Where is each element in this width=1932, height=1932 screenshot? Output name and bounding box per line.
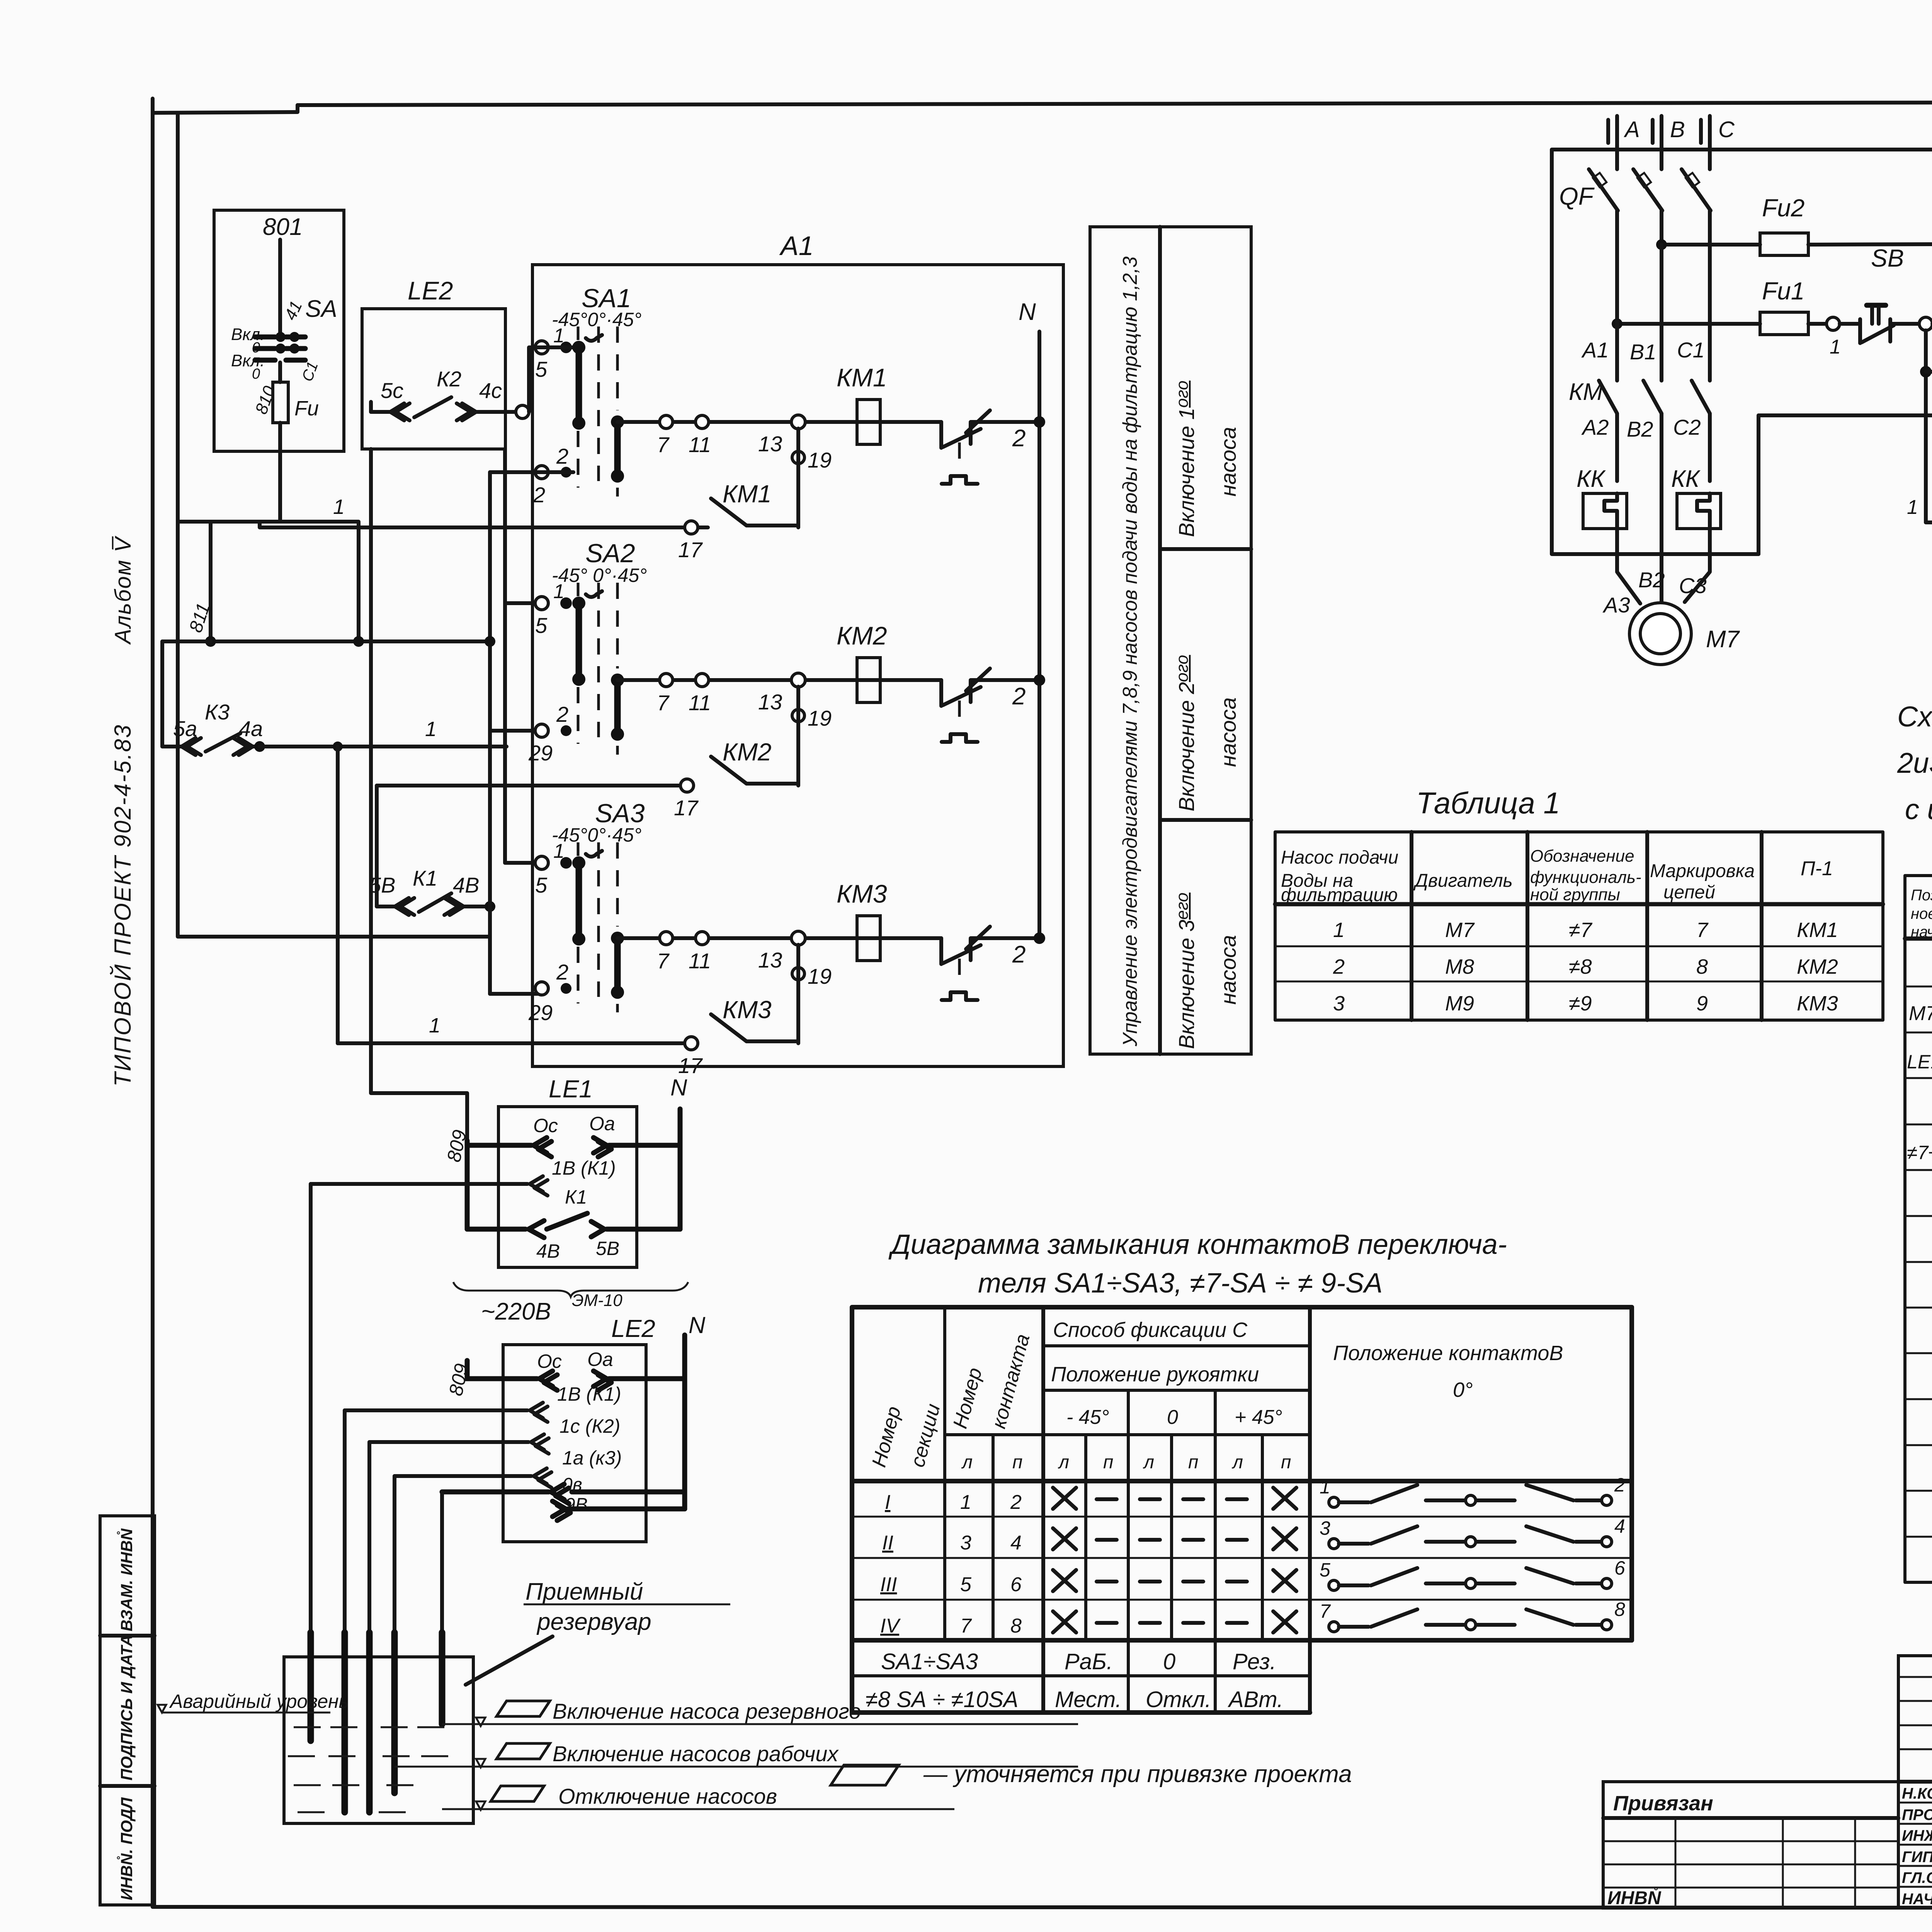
svg-text:Ос: Ос (533, 1115, 558, 1136)
svg-text:≠9: ≠9 (1569, 992, 1592, 1015)
function strip divider (1158, 227, 1162, 1054)
svg-text:SВ: SВ (1871, 244, 1904, 272)
svg-text:0: 0 (1163, 1649, 1175, 1674)
svg-text:N: N (1019, 299, 1036, 325)
svg-text:п: п (1188, 1452, 1198, 1473)
svg-text:2: 2 (556, 444, 568, 468)
svg-text:Отключение насосов: Отключение насосов (558, 1784, 777, 1808)
title block outer (1898, 1656, 1932, 1908)
LE1 contact K1 (467, 1186, 680, 1262)
drawing frame top-left step (153, 105, 298, 113)
SECTION: a1box (528, 227, 1251, 1078)
svg-text:М7: М7 (1445, 918, 1475, 942)
svg-text:Fи1: Fи1 (1762, 277, 1804, 305)
svg-text:7: 7 (657, 949, 670, 973)
svg-text:1В (К1): 1В (К1) (557, 1383, 621, 1405)
svg-text:SА3: SА3 (595, 799, 645, 828)
svg-text:резервуар: резервуар (536, 1609, 651, 1635)
svg-text:4: 4 (1010, 1532, 1022, 1554)
svg-text:М7÷М9: М7÷М9 (1909, 1002, 1932, 1025)
svg-text:НАЧ.ОТД: НАЧ.ОТД (1902, 1891, 1932, 1908)
feeder stub row A3 (505, 861, 539, 865)
svg-text:Включение насосов рабочих: Включение насосов рабочих (553, 1742, 839, 1766)
svg-text:К3: К3 (205, 700, 230, 724)
LE2 rows 0B 9B (442, 1475, 685, 1520)
svg-text:3: 3 (1320, 1517, 1330, 1539)
svg-text:Насос подачи: Насос подачи (1281, 847, 1398, 868)
svg-text:— уточняется при привязке: — уточняется при привязке проекта (923, 1761, 1352, 1787)
function strip cell divider 2 (1160, 818, 1251, 822)
coil KM2 (857, 658, 880, 702)
diagram table grid (852, 1307, 1632, 1713)
svg-text:ПОДПИСЬ И ДАТА: ПОДПИСЬ И ДАТА (117, 1635, 136, 1781)
SECTION: titleblock (1603, 1656, 1932, 1932)
svg-text:КМ1: КМ1 (837, 363, 887, 392)
function strip cell divider 1 (1160, 547, 1251, 551)
receiving tank (284, 1657, 473, 1823)
motor M7 (1602, 529, 1740, 665)
svg-text:Позицион-: Позицион- (1911, 887, 1932, 904)
svg-text:≠7: ≠7 (1569, 918, 1593, 942)
svg-text:Мест.: Мест. (1055, 1687, 1122, 1712)
svg-text:Управление электродвигателями: Управление электродвигателями 7,8,9 насо… (1119, 257, 1141, 1047)
SECTION: tables (1275, 701, 1932, 1582)
svg-text:SА2: SА2 (585, 539, 635, 568)
svg-text:ПРОВЕР.: ПРОВЕР. (1902, 1806, 1932, 1823)
svg-text:7: 7 (960, 1615, 972, 1637)
contact K3 (5a-4a) (162, 700, 265, 755)
sidebar divider 2 (100, 1784, 155, 1788)
svg-text:1с (К2): 1с (К2) (560, 1415, 620, 1437)
svg-text:~220В: ~220В (481, 1298, 551, 1325)
svg-text:л: л (1231, 1452, 1243, 1473)
svg-text:с изменениями согласно табли: с изменениями согласно таблице 1 (1905, 793, 1932, 825)
aux contact KM3 (self hold) (678, 945, 832, 1078)
SECTION: levelsensors (158, 1075, 1352, 1823)
svg-text:2и3 аналогична схеме управл: 2и3 аналогична схеме управления насосом … (1897, 747, 1932, 779)
wire 801 drop inside box (278, 240, 282, 333)
thermal contact KK2 with reset (941, 668, 1039, 742)
fuse Fu1 (1612, 277, 1826, 335)
svg-text:КМ2: КМ2 (837, 621, 887, 650)
svg-text:А2: А2 (1581, 415, 1609, 439)
svg-text:1: 1 (1333, 918, 1345, 942)
sidebar divider 1 (100, 1634, 155, 1638)
LE2 row 1B(K1) (345, 1383, 621, 1422)
svg-text:29: 29 (528, 1000, 553, 1025)
wire LE2 box left drop (371, 449, 467, 1141)
svg-text:5: 5 (535, 613, 548, 638)
switch SA in box 801 (231, 296, 337, 382)
svg-text:л: л (1058, 1452, 1069, 1473)
svg-text:9: 9 (1696, 992, 1708, 1015)
svg-text:К2: К2 (437, 367, 461, 391)
svg-text:АВт.: АВт. (1228, 1687, 1283, 1712)
svg-text:Оа: Оа (589, 1113, 615, 1134)
signatures grid (1898, 1656, 1932, 1908)
svg-text:2: 2 (1012, 425, 1026, 452)
svg-text:ной группы: ной группы (1530, 885, 1620, 904)
svg-text:19: 19 (808, 706, 832, 730)
wire drop to aux rung3 (336, 747, 340, 1043)
svg-text:М8: М8 (1445, 955, 1474, 978)
parts list table grid (1905, 876, 1932, 1582)
svg-text:Ос: Ос (537, 1350, 562, 1372)
function strip box (1090, 227, 1251, 1054)
sensor LE2 box (503, 1345, 646, 1542)
svg-text:насоса: насоса (1216, 935, 1240, 1005)
svg-text:Оа: Оа (587, 1349, 613, 1370)
svg-text:Схема управления насосами пода: Схема управления насосами подачи воды на… (1897, 701, 1932, 733)
svg-text:Положение контактоВ: Положение контактоВ (1333, 1342, 1563, 1365)
svg-text:11: 11 (689, 432, 711, 457)
thermal relays KK heaters (1577, 466, 1721, 529)
svg-text:I: I (885, 1491, 890, 1514)
data row II (882, 1528, 1296, 1554)
svg-text:1В (К1): 1В (К1) (552, 1157, 616, 1179)
svg-text:1: 1 (1907, 496, 1918, 519)
svg-text:Рез.: Рез. (1233, 1649, 1276, 1674)
svg-text:8: 8 (1614, 1599, 1625, 1620)
interposing relay section P-1 (1907, 448, 1932, 565)
svg-text:функциональ-: функциональ- (1530, 868, 1641, 887)
LE1 row 1B(K1) (311, 1157, 616, 1196)
contact K2 (5c-4c) in LE2 (371, 367, 522, 420)
svg-text:ное обоз-: ное обоз- (1911, 905, 1932, 922)
svg-text:N: N (670, 1075, 687, 1100)
svg-text:3: 3 (960, 1532, 971, 1554)
breaker QF (1559, 169, 1711, 245)
wire from A1 area to panel (long link) (1757, 415, 1760, 554)
svg-text:2: 2 (1010, 1491, 1022, 1514)
SECTION: diagramtable (852, 1229, 1632, 1713)
switch SA3 (528, 799, 645, 1025)
thermal contact KK1 with reset (941, 410, 1039, 484)
svg-text:А: А (1624, 117, 1640, 142)
wire K2 to SA1 row A (529, 347, 537, 412)
thermal contact KK3 with reset (941, 927, 1039, 1000)
svg-text:13: 13 (758, 690, 782, 714)
svg-text:4а: 4а (239, 716, 263, 741)
svg-text:2: 2 (556, 702, 568, 726)
svg-text:В: В (1670, 117, 1685, 142)
svg-text:РаБ.: РаБ. (1065, 1649, 1113, 1674)
svg-text:2: 2 (533, 483, 545, 507)
LE2 upper box (362, 309, 505, 449)
svg-text:SА1÷SА3: SА1÷SА3 (881, 1649, 978, 1674)
svg-text:ГИП: ГИП (1902, 1849, 1932, 1866)
svg-text:Альбом V̅: Альбом V̅ (111, 535, 136, 645)
svg-text:7: 7 (1320, 1600, 1331, 1622)
phase A lead-in (1615, 116, 1619, 169)
svg-text:КМ3: КМ3 (1797, 992, 1838, 1015)
svg-text:Диаграмма замыкания контакто: Диаграмма замыкания контактоВ переключа- (888, 1229, 1507, 1260)
svg-text:LЕ1;LЕ2: LЕ1;LЕ2 (1907, 1051, 1932, 1073)
svg-text:8: 8 (1010, 1615, 1022, 1637)
electrode wires down to tank (309, 1184, 313, 1638)
svg-text:2: 2 (1333, 955, 1345, 978)
box A1 (532, 265, 1063, 1066)
self-hold contact KM (1920, 324, 1932, 522)
left box Privyazan (1603, 1792, 1898, 1908)
svg-text:1а (к3): 1а (к3) (562, 1447, 622, 1469)
switch diagram row 4 (1320, 1599, 1625, 1632)
svg-text:3: 3 (1333, 992, 1345, 1015)
svg-text:2: 2 (556, 960, 568, 984)
enclosure boundary left (178, 113, 490, 994)
svg-text:LЕ2: LЕ2 (408, 276, 453, 305)
svg-text:17: 17 (678, 537, 703, 562)
svg-text:- 45°: - 45° (1066, 1406, 1109, 1429)
svg-text:КМ1: КМ1 (723, 480, 772, 508)
svg-text:-45°0°·45°: -45°0°·45° (552, 309, 641, 330)
svg-text:Таблица 1: Таблица 1 (1416, 786, 1560, 820)
rung 2 line (617, 678, 941, 682)
LE1 row Oc Oa (467, 1109, 680, 1229)
svg-text:0°: 0° (1453, 1378, 1473, 1401)
svg-text:4В: 4В (453, 873, 480, 897)
switch diagram row 3 (1320, 1557, 1625, 1590)
svg-text:-45°0°·45°: -45°0°·45° (552, 824, 641, 846)
svg-text:0: 0 (252, 366, 260, 382)
sensor LE1 box (498, 1107, 637, 1267)
level mark 2 + legend (395, 1742, 1078, 1767)
phase B lead-in (1660, 116, 1663, 169)
left sidebar strip (100, 1516, 155, 1905)
drawing frame left border (151, 99, 155, 1907)
svg-text:М9: М9 (1445, 992, 1474, 1015)
svg-text:А1: А1 (779, 231, 814, 261)
wire aux2 left extension (377, 784, 687, 787)
svg-text:6: 6 (1614, 1557, 1625, 1579)
svg-text:начение: начение (1911, 923, 1932, 940)
svg-text:7: 7 (657, 690, 670, 715)
svg-text:5В: 5В (369, 873, 396, 897)
svg-text:ИНВN̊. ПОДЛ: ИНВN̊. ПОДЛ (117, 1797, 136, 1900)
data row III (880, 1570, 1296, 1596)
neutral wire N (1037, 332, 1041, 938)
svg-text:п: п (1103, 1452, 1113, 1473)
svg-text:17: 17 (678, 1053, 703, 1078)
svg-text:В2: В2 (1627, 417, 1653, 441)
svg-text:4В: 4В (536, 1240, 560, 1262)
svg-text:ГЛ.СПЕЦ: ГЛ.СПЕЦ (1902, 1869, 1932, 1886)
SECTION: leftblock (162, 113, 692, 1141)
level mark 3 + legend (442, 1784, 954, 1810)
svg-text:II: II (882, 1532, 893, 1554)
svg-text:КМ2: КМ2 (1797, 955, 1838, 978)
svg-text:4с: 4с (479, 378, 502, 403)
box 801 (214, 210, 344, 451)
svg-text:А1: А1 (1581, 338, 1609, 362)
svg-text:LЕ1: LЕ1 (549, 1075, 593, 1103)
table 1 grid (1275, 832, 1883, 1020)
rung 3 line (617, 936, 941, 940)
svg-text:ЭМ-10: ЭМ-10 (572, 1291, 622, 1310)
svg-text:2: 2 (1614, 1474, 1625, 1496)
feeder vertical rows B (488, 472, 492, 994)
svg-text:ИНЖ.: ИНЖ. (1902, 1827, 1932, 1844)
wire aux3 left extension (338, 1041, 691, 1045)
phase C lead-in (1708, 116, 1712, 169)
svg-text:19: 19 (808, 448, 832, 472)
svg-text:КК: КК (1577, 466, 1606, 492)
data row IV (880, 1611, 1296, 1637)
svg-text:QF: QF (1559, 182, 1595, 210)
LE2 row Oc Oa (467, 1335, 685, 1509)
svg-text:С1: С1 (1677, 338, 1705, 362)
wire 811 bus (209, 522, 213, 641)
svg-text:С2: С2 (1673, 415, 1701, 439)
wire LE2 box right drop to SA rows (503, 449, 507, 863)
contact K1 (5В-4В) (369, 786, 495, 915)
svg-text:Двигатель: Двигатель (1413, 871, 1513, 891)
electrodes (308, 1633, 314, 1741)
svg-text:Обозначение: Обозначение (1530, 847, 1634, 866)
feeder stub row B3 (490, 992, 539, 996)
svg-text:N: N (689, 1312, 706, 1338)
brace 220V EM-10 (453, 1282, 688, 1297)
feeder stub row B1 (490, 470, 539, 474)
svg-text:Способ фиксации С: Способ фиксации С (1053, 1318, 1248, 1342)
svg-text:насоса: насоса (1216, 427, 1240, 497)
LE2 row 1c(K2) (369, 1415, 620, 1454)
svg-text:7: 7 (657, 432, 670, 457)
svg-text:Аварийный уровень: Аварийный уровень (169, 1690, 349, 1712)
svg-text:ИНВN̊: ИНВN̊ (1607, 1887, 1662, 1908)
svg-text:29: 29 (528, 741, 553, 765)
feeder stub row B2 (490, 729, 539, 733)
svg-text:В2: В2 (1638, 568, 1665, 592)
svg-text:2: 2 (1012, 683, 1026, 710)
svg-text:насоса: насоса (1216, 697, 1240, 767)
svg-text:С3: С3 (1679, 573, 1707, 598)
svg-text:Откл.: Откл. (1146, 1687, 1211, 1712)
data row I (885, 1488, 1296, 1514)
svg-text:5: 5 (535, 873, 548, 897)
svg-text:Привязан: Привязан (1613, 1792, 1713, 1815)
svg-text:5В: 5В (596, 1238, 619, 1259)
level mark 1 + legend (442, 1699, 1078, 1726)
water level dashes (288, 1727, 448, 1812)
wire jog 801 to 811 bus (178, 522, 359, 641)
panel boundary (stepped box) (1552, 150, 1932, 602)
switch SA2 (528, 539, 647, 765)
svg-text:4: 4 (1614, 1515, 1625, 1537)
svg-text:7: 7 (1696, 918, 1709, 942)
svg-text:КМ3: КМ3 (723, 996, 772, 1024)
svg-text:Приемный: Приемный (526, 1578, 643, 1605)
svg-text:11: 11 (689, 690, 711, 715)
aux contact KM1 (self hold) (678, 429, 832, 562)
svg-text:П-1: П-1 (1801, 857, 1833, 880)
svg-text:ТИПОВОЙ ПРОЕКТ 902-4-5.83: ТИПОВОЙ ПРОЕКТ 902-4-5.83 (110, 724, 136, 1087)
svg-text:С: С (1718, 117, 1735, 142)
svg-text:п: п (1012, 1452, 1022, 1473)
drawing frame bottom border (153, 1907, 1932, 1908)
svg-text:Н.КОНТР: Н.КОНТР (1902, 1785, 1932, 1802)
svg-text:Включение насоса резервного: Включение насоса резервного (553, 1699, 861, 1723)
coil KM1 (857, 400, 880, 444)
svg-text:л: л (961, 1452, 973, 1473)
svg-text:1: 1 (960, 1491, 971, 1514)
svg-text:ВЗАМ. ИНВN̊: ВЗАМ. ИНВN̊ (117, 1528, 136, 1631)
note: refined at project binding (831, 1765, 899, 1785)
svg-text:2: 2 (1012, 941, 1026, 968)
wire drop to K3 row (160, 641, 164, 747)
fuse Fu in box 801 (273, 382, 288, 423)
svg-text:л: л (1143, 1452, 1154, 1473)
svg-text:Маркировка: Маркировка (1650, 861, 1755, 881)
svg-text:1: 1 (1830, 336, 1841, 358)
svg-text:5с: 5с (381, 378, 403, 403)
contactor KM main contacts (1569, 245, 1710, 616)
svg-text:1: 1 (429, 1014, 440, 1037)
svg-text:1: 1 (425, 718, 437, 741)
svg-text:КМ1: КМ1 (1797, 918, 1838, 942)
aux contact KM2 (self hold) (674, 687, 832, 820)
SECTION: rightcircuit (1552, 116, 1932, 665)
svg-text:п: п (1281, 1452, 1291, 1473)
svg-text:КМ2: КМ2 (723, 738, 772, 766)
svg-text:Fи: Fи (294, 397, 319, 420)
svg-text:1: 1 (1320, 1476, 1330, 1498)
switch SA1 (532, 284, 641, 507)
svg-text:SA: SA (305, 296, 337, 322)
coil KM3 (857, 916, 880, 961)
LE2 row 1a(K3) (395, 1447, 622, 1488)
wire 1 from K3 to SA3 feeder (260, 745, 507, 748)
svg-text:5: 5 (535, 357, 548, 381)
svg-text:А3: А3 (1602, 593, 1630, 617)
svg-text:6: 6 (1010, 1573, 1022, 1596)
node 5 (1919, 317, 1932, 330)
svg-text:К1: К1 (413, 866, 437, 890)
svg-text:III: III (880, 1573, 897, 1596)
fuse Fu2 (1656, 194, 1932, 255)
svg-text:В1: В1 (1630, 340, 1656, 364)
svg-text:0: 0 (1167, 1406, 1178, 1429)
svg-text:Положение рукоятки: Положение рукоятки (1051, 1363, 1259, 1386)
svg-text:LЕ2: LЕ2 (611, 1315, 655, 1342)
drawing frame top border (298, 101, 1932, 105)
svg-text:5: 5 (960, 1573, 972, 1596)
switch diagram row 1 (1320, 1474, 1625, 1507)
svg-text:М7: М7 (1706, 626, 1740, 653)
wire from Fu to box bottom (278, 423, 282, 522)
switch diagram row 2 (1320, 1515, 1625, 1549)
svg-text:17: 17 (674, 796, 699, 820)
svg-text:≠7÷≠9: ≠7÷≠9 (1907, 1142, 1932, 1163)
svg-text:801: 801 (263, 214, 303, 240)
svg-text:Fи2: Fи2 (1762, 194, 1804, 222)
svg-text:КМ3: КМ3 (837, 879, 887, 908)
stop button SB (NC) (1827, 244, 1919, 358)
svg-text:КК: КК (1671, 466, 1701, 492)
svg-text:13: 13 (758, 948, 782, 972)
svg-text:1: 1 (333, 495, 345, 519)
svg-text:≠8: ≠8 (1569, 955, 1592, 978)
svg-text:≠8 SА ÷ ≠10SА: ≠8 SА ÷ ≠10SА (866, 1687, 1018, 1712)
svg-text:цепей: цепей (1663, 882, 1715, 903)
wire aux1 left extension (260, 522, 692, 527)
feeder stub row A2 (505, 601, 539, 605)
svg-text:фильтрацию: фильтрацию (1281, 885, 1398, 905)
svg-text:13: 13 (758, 432, 782, 456)
svg-text:IV: IV (880, 1615, 901, 1637)
svg-text:8: 8 (1696, 955, 1708, 978)
rung 1 line (617, 420, 941, 424)
